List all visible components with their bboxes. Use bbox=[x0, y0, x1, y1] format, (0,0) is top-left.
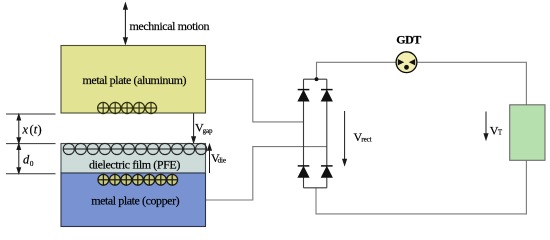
wire: copper plate to bridge right midpoint bbox=[206, 147, 327, 200]
positive charges on aluminum plate bbox=[98, 102, 157, 113]
svg-text:dielectric film (PFE): dielectric film (PFE) bbox=[89, 157, 180, 171]
svg-text:mechnical motion: mechnical motion bbox=[130, 19, 210, 33]
dimension line: dielectric top bbox=[6, 143, 56, 145]
svg-text:GDT: GDT bbox=[396, 33, 421, 47]
bridge right branch wire bbox=[326, 79, 328, 188]
GDT symbol bbox=[396, 52, 417, 73]
svg-text:): ) bbox=[38, 123, 42, 137]
x(t) extent arrow bbox=[17, 114, 21, 143]
svg-text:x: x bbox=[22, 123, 29, 137]
svg-text:rect: rect bbox=[361, 136, 371, 144]
svg-text:metal plate (copper): metal plate (copper) bbox=[91, 193, 179, 207]
dielectric film (PFE) bbox=[61, 144, 206, 174]
V_T arrow bbox=[484, 112, 488, 140]
diode D3 (bottom-left) bbox=[298, 166, 310, 177]
svg-text:metal plate (aluminum): metal plate (aluminum) bbox=[82, 73, 186, 87]
metal plate (aluminum) bbox=[61, 46, 206, 114]
mechanical motion arrow bbox=[124, 3, 128, 44]
diode D4 (bottom-right) bbox=[321, 166, 333, 177]
diode D2 (top-right) bbox=[321, 90, 333, 101]
negative charges on dielectric bbox=[63, 143, 207, 154]
positive charges on copper plate bbox=[98, 174, 178, 185]
junction dot bbox=[315, 77, 319, 81]
bridge bottom rail bbox=[304, 187, 327, 189]
wire: load bottom to bridge bottom bbox=[316, 160, 526, 214]
wire: bridge top to GDT to load top bbox=[317, 62, 527, 105]
wire: aluminum plate to bridge left midpoint bbox=[206, 79, 304, 122]
dimension line: copper top bbox=[6, 173, 56, 175]
V_rect arrow bbox=[343, 111, 347, 165]
metal plate (copper) bbox=[61, 173, 206, 227]
diode D1 (top-left) bbox=[298, 90, 310, 101]
dimension line: aluminum bottom bbox=[6, 113, 56, 115]
svg-text:0: 0 bbox=[30, 159, 34, 168]
bridge top rail bbox=[304, 78, 327, 80]
load resistor (terminal device) bbox=[510, 105, 545, 161]
V_die arrow bbox=[208, 144, 212, 173]
svg-text:gap: gap bbox=[203, 127, 213, 135]
svg-text:T: T bbox=[498, 128, 503, 136]
V_gap arrow bbox=[192, 114, 196, 143]
bridge left branch wire bbox=[303, 79, 305, 188]
svg-text:die: die bbox=[218, 156, 226, 164]
d0 extent arrow bbox=[17, 144, 21, 174]
